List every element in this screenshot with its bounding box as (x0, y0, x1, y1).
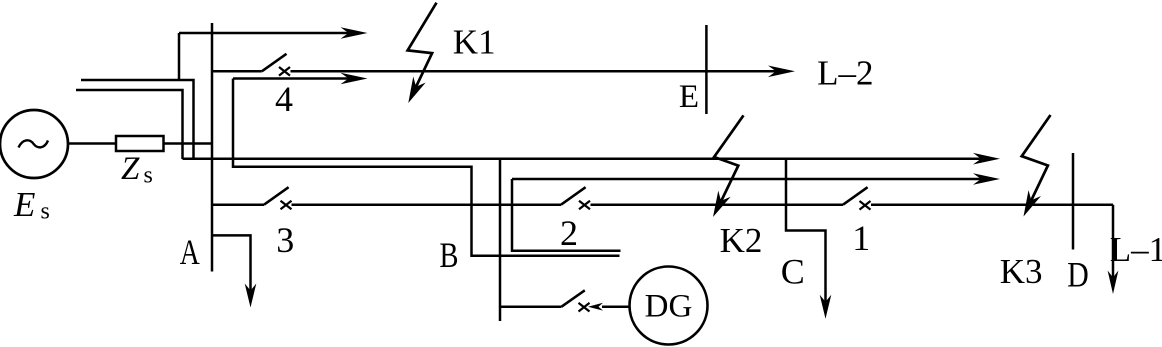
svg-text:Z: Z (121, 151, 140, 187)
svg-text:K1: K1 (453, 23, 496, 62)
svg-text:E: E (679, 79, 699, 115)
svg-text:K3: K3 (1000, 252, 1043, 291)
svg-text:A: A (180, 232, 200, 272)
svg-text:2: 2 (560, 213, 578, 253)
svg-text:4: 4 (275, 79, 293, 119)
svg-text:DG: DG (645, 289, 693, 325)
svg-text:s: s (144, 163, 153, 189)
svg-text:B: B (440, 235, 459, 275)
svg-text:C: C (781, 252, 805, 292)
svg-text:3: 3 (276, 220, 294, 260)
svg-text:D: D (1067, 254, 1089, 294)
svg-text:s: s (41, 199, 50, 225)
svg-text:1: 1 (852, 218, 870, 258)
svg-text:L–2: L–2 (817, 54, 873, 93)
svg-text:K2: K2 (720, 221, 763, 260)
svg-text:E: E (13, 185, 35, 224)
svg-text:L–1: L–1 (1110, 230, 1162, 269)
